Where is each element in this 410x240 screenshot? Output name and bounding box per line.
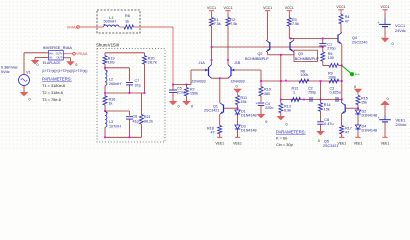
svg-text:Q3: Q3 bbox=[298, 52, 303, 56]
wire R9 to output rail bbox=[339, 64, 342, 66]
ground under V1 bbox=[20, 92, 29, 96]
svg-text:0: 0 bbox=[37, 63, 39, 67]
wire R14 column to ladder top wire bbox=[320, 81, 322, 100]
wire J1B gate to feedback node bbox=[236, 69, 262, 71]
transistor J1B bbox=[230, 67, 232, 76]
svg-text:0: 0 bbox=[392, 42, 394, 46]
wire D2 to D4 bbox=[357, 116, 359, 124]
transistor Q1 bbox=[223, 105, 225, 113]
resistor R19 bbox=[103, 56, 107, 64]
wire Q2 emitter to common node bbox=[267, 52, 269, 55]
voltage marker green bbox=[342, 66, 350, 73]
svg-text:15k: 15k bbox=[324, 107, 330, 111]
resistor R12 on top wire bbox=[329, 79, 339, 83]
svg-text:ShureV15III: ShureV15III bbox=[96, 42, 119, 47]
resistor R18 bbox=[218, 126, 222, 134]
svg-text:Q2: Q2 bbox=[258, 52, 263, 56]
wire Q2/Q3 emitters down ladder rail bbox=[280, 55, 282, 100]
resistor R15 bbox=[356, 95, 360, 104]
svg-text:J2N4393: J2N4393 bbox=[192, 79, 206, 83]
svg-text:VEE1: VEE1 bbox=[215, 141, 224, 145]
wire D1 to D3 bbox=[237, 116, 239, 124]
svg-text:OUT-: OUT- bbox=[56, 56, 62, 60]
svg-text:270p: 270p bbox=[327, 47, 335, 51]
output rail wire bbox=[341, 44, 343, 99]
svg-text:+: + bbox=[378, 116, 380, 120]
wire L2 bottom to mid rail bbox=[104, 86, 106, 97]
svg-text:VEE1: VEE1 bbox=[396, 118, 406, 122]
wire R2 to J1B drain bbox=[227, 26, 229, 65]
node between R16 and L3 bbox=[104, 105, 106, 112]
capacitor C8 bbox=[320, 111, 322, 122]
svg-text:0: 0 bbox=[75, 63, 77, 67]
svg-text:D1N4148: D1N4148 bbox=[241, 114, 257, 118]
svg-text:2SC3421: 2SC3421 bbox=[323, 144, 338, 148]
svg-text:2SC3421: 2SC3421 bbox=[204, 109, 219, 113]
wire Q5 base to bias chain bbox=[345, 107, 358, 109]
wire Q5 emitter to R17 bbox=[340, 114, 342, 125]
capacitor C6 bbox=[126, 116, 133, 118]
dashed box cartridge model bbox=[97, 10, 140, 33]
svg-text:V1: V1 bbox=[26, 70, 31, 74]
wire R19/L2 node to C7 bbox=[105, 67, 130, 69]
svg-text:500mH: 500mH bbox=[104, 20, 116, 24]
capacitor C1 bbox=[322, 38, 324, 43]
hierarchical block INVERSE_RIAA ELAPLACE bbox=[49, 51, 64, 61]
VCC1 power symbol above R3 bbox=[287, 10, 292, 12]
svg-text:R21: R21 bbox=[144, 115, 151, 119]
svg-text:OUT+: OUT+ bbox=[56, 51, 63, 55]
svg-text:24Vdc: 24Vdc bbox=[396, 123, 407, 127]
svg-text:D1N4148: D1N4148 bbox=[241, 129, 257, 133]
inductor L1 bbox=[104, 25, 120, 27]
svg-text:J1A: J1A bbox=[199, 61, 206, 65]
ground under R13 bbox=[277, 116, 286, 120]
capacitor C3 on bottom wire bbox=[335, 97, 337, 102]
wire R1 to J1A drain bbox=[211, 26, 213, 65]
svg-text:0: 0 bbox=[286, 123, 288, 127]
resistor R7 bbox=[186, 85, 188, 88]
dotted box ShureV15III bbox=[97, 49, 165, 142]
wire IN- to ground bbox=[35, 57, 49, 59]
label box Q3 bbox=[294, 50, 318, 61]
ground under C5 bbox=[169, 101, 178, 105]
capacitor C2 on bottom wire bbox=[309, 97, 311, 102]
VEE1 symbol under D3 bbox=[237, 135, 239, 137]
svg-text:VCC1: VCC1 bbox=[336, 5, 345, 9]
resistor R2 bbox=[227, 14, 229, 18]
svg-text:360: 360 bbox=[264, 92, 270, 96]
svg-text:100: 100 bbox=[328, 56, 334, 60]
svg-text:28.7k: 28.7k bbox=[148, 61, 157, 65]
svg-text:150k: 150k bbox=[190, 92, 198, 96]
svg-text:0: 0 bbox=[29, 98, 31, 102]
port VRIAA at block output bbox=[73, 52, 76, 55]
svg-text:2SC2240: 2SC2240 bbox=[352, 40, 367, 44]
svg-text:1k: 1k bbox=[109, 102, 113, 106]
svg-text:15k: 15k bbox=[361, 101, 367, 105]
svg-text:J2N4393: J2N4393 bbox=[231, 79, 245, 83]
VEE1 symbol under battery bbox=[384, 135, 386, 137]
svg-text:220u: 220u bbox=[265, 106, 273, 110]
svg-text:47: 47 bbox=[211, 130, 215, 134]
svg-text:T1 = 3180e-6: T1 = 3180e-6 bbox=[42, 83, 65, 88]
svg-text:D1N4148: D1N4148 bbox=[362, 129, 378, 133]
svg-text:J1B: J1B bbox=[234, 61, 241, 65]
svg-text:0: 0 bbox=[354, 85, 356, 89]
svg-text:VCC1: VCC1 bbox=[285, 6, 294, 10]
ladder bottom wire bbox=[281, 99, 342, 101]
wire Q1 emitter to R18 bbox=[219, 114, 221, 125]
wire top loop of box bbox=[105, 52, 145, 54]
svg-text:PARAMETERS:: PARAMETERS: bbox=[42, 77, 72, 82]
resistor R20 bbox=[143, 56, 147, 64]
svg-text:7.5k: 7.5k bbox=[292, 22, 299, 26]
wire R20 to mid rail bbox=[144, 64, 146, 93]
svg-text:PARAMETERS:: PARAMETERS: bbox=[276, 129, 306, 134]
svg-text:15k: 15k bbox=[241, 100, 247, 104]
resistor R9 bbox=[329, 63, 339, 67]
svg-text:0: 0 bbox=[318, 139, 320, 143]
resistor R14 bbox=[320, 100, 322, 103]
wire R3 to Q3 collector node bbox=[288, 26, 290, 38]
svg-text:0.825u: 0.825u bbox=[330, 91, 341, 95]
wire VCC1 to Q2 collector bbox=[267, 14, 269, 41]
node between R19 and L2 bbox=[104, 64, 106, 70]
svg-text:0Vdc: 0Vdc bbox=[1, 70, 10, 74]
svg-text:+: + bbox=[378, 21, 380, 25]
VCC1 power symbol above Q2 bbox=[265, 10, 270, 12]
svg-text:7.5k: 7.5k bbox=[230, 22, 237, 26]
svg-text:ELAPLACE: ELAPLACE bbox=[43, 61, 61, 65]
svg-text:98.2k: 98.2k bbox=[144, 120, 153, 124]
wire R16/L3 node to C6 bbox=[105, 110, 130, 112]
diode D3 bbox=[237, 124, 239, 125]
wire input node bbox=[172, 84, 174, 86]
battery V3 VEE1 24Vdc bbox=[379, 119, 391, 121]
svg-text:0: 0 bbox=[236, 85, 238, 89]
svg-text:BCHMBB/PLP: BCHMBB/PLP bbox=[245, 57, 269, 61]
svg-text:0: 0 bbox=[265, 120, 267, 124]
ground under VCC battery bbox=[381, 38, 390, 42]
svg-text:107mH: 107mH bbox=[109, 124, 121, 128]
ground above VEE battery bbox=[380, 100, 390, 105]
wire input to J1A gate bbox=[173, 84, 191, 86]
svg-text:24Vdc: 24Vdc bbox=[395, 29, 406, 33]
battery V2 VCC1 24Vdc bbox=[379, 23, 391, 25]
svg-text:750p: 750p bbox=[308, 91, 316, 95]
ground under C4 bbox=[257, 114, 266, 118]
resistor zig on bottom wire bbox=[291, 98, 301, 102]
transistor Q2 bbox=[269, 42, 271, 50]
transistor J1A bbox=[208, 67, 210, 76]
diode D2 bbox=[357, 109, 359, 110]
ladder top wire bbox=[261, 80, 342, 82]
svg-text:T3 = 75e-6: T3 = 75e-6 bbox=[42, 97, 61, 102]
mid wire of box bbox=[105, 92, 145, 94]
svg-text:Cin = 30p: Cin = 30p bbox=[276, 142, 293, 147]
resistor R8 on top wire bbox=[299, 79, 309, 83]
wire R6 to input node highlighted bbox=[134, 26, 174, 28]
svg-text:VRIAA: VRIAA bbox=[76, 52, 88, 56]
svg-text:C6: C6 bbox=[133, 115, 138, 119]
wire VCC1 to battery bbox=[384, 13, 386, 18]
svg-text:7.5k: 7.5k bbox=[214, 22, 221, 26]
svg-text:INVERSE_RIAA: INVERSE_RIAA bbox=[43, 45, 72, 50]
svg-text:IN-: IN- bbox=[49, 56, 53, 60]
resistor R10 bbox=[259, 87, 263, 96]
diode D1 bbox=[237, 109, 239, 110]
VEE1 symbol under D4 bbox=[357, 135, 359, 137]
diode D4 bbox=[357, 124, 359, 125]
wire L1 to R6 highlighted bbox=[119, 26, 124, 28]
wire OUT+ VRIAA highlighted bbox=[63, 53, 72, 55]
resistor R1 bbox=[211, 14, 213, 18]
svg-text:6.9k: 6.9k bbox=[284, 109, 291, 113]
svg-text:IN+: IN+ bbox=[49, 51, 54, 55]
wire Q3 emitter to common node bbox=[293, 52, 295, 55]
svg-text:VCC1: VCC1 bbox=[207, 6, 216, 10]
svg-text:D1N4148: D1N4148 bbox=[362, 114, 378, 118]
svg-text:0: 0 bbox=[191, 105, 193, 109]
wire R4 to Q4 collector bbox=[340, 24, 342, 33]
VEE1 symbol under R18 bbox=[219, 135, 221, 137]
inductor L2 bbox=[105, 70, 107, 86]
capacitor C5 Cin bbox=[172, 85, 174, 91]
ac source V1 bbox=[23, 53, 25, 75]
svg-text:VEE1: VEE1 bbox=[233, 141, 242, 145]
svg-text:37p: 37p bbox=[135, 83, 141, 87]
bottom wire of box bbox=[104, 127, 106, 137]
resistor R17 bbox=[340, 126, 344, 134]
wire J1A drain to bases and C1 bbox=[212, 46, 323, 48]
resistor R4 bbox=[340, 13, 342, 15]
VCC1 power symbol top right bbox=[382, 9, 387, 11]
wire OUT- to ground bbox=[63, 57, 70, 59]
svg-text:K = 6k: K = 6k bbox=[276, 135, 287, 140]
wire VRIAA to L1 highlighted bbox=[79, 26, 103, 28]
resistor R21 bbox=[140, 93, 142, 115]
svg-text:VCC1: VCC1 bbox=[263, 6, 272, 10]
VCC1 power symbol above R2 bbox=[225, 10, 230, 12]
VEE1 symbol under R17 bbox=[341, 135, 343, 137]
resistor R5 bbox=[322, 47, 324, 52]
svg-text:VEE1: VEE1 bbox=[381, 141, 390, 145]
ground at IN- bbox=[31, 60, 40, 64]
second stage output wire bbox=[289, 37, 338, 39]
svg-text:BCHMBB/PLP: BCHMBB/PLP bbox=[295, 57, 319, 61]
resistor R16 bbox=[103, 96, 107, 105]
svg-text:47: 47 bbox=[345, 130, 349, 134]
VCC1 power symbol above R4 bbox=[338, 9, 343, 11]
resistor R3 bbox=[288, 14, 290, 18]
ground under C8 bbox=[316, 131, 325, 135]
transistor Q4 bbox=[337, 34, 339, 42]
capacitor C4 bbox=[260, 96, 262, 102]
svg-text:0.38mVac: 0.38mVac bbox=[1, 65, 18, 69]
svg-text:R6: R6 bbox=[125, 14, 130, 18]
svg-text:VCC1: VCC1 bbox=[395, 24, 405, 28]
source coupling wire bbox=[211, 77, 213, 79]
resistor R13 bbox=[280, 100, 282, 104]
svg-text:0.47u: 0.47u bbox=[324, 122, 333, 126]
svg-text:0: 0 bbox=[178, 105, 180, 109]
capacitor C7 bbox=[126, 82, 133, 84]
junction at C1/R5 node bbox=[322, 46, 324, 48]
ground at OUT- bbox=[66, 61, 75, 65]
wire R5 to R9 bbox=[322, 61, 324, 65]
svg-text:(1+T1*(s))*(1+T2*(s))/(1+T3*(s: (1+T1*(s))*(1+T2*(s))/(1+T3*(s)) bbox=[42, 69, 87, 73]
ground under R7 bbox=[182, 101, 191, 105]
svg-text:41p: 41p bbox=[133, 119, 139, 123]
VCC1 power symbol above R1 bbox=[209, 10, 214, 12]
transistor Q5 bbox=[344, 104, 346, 112]
node R11 to Q1 base and D1 bbox=[237, 105, 239, 109]
svg-text:VCC1: VCC1 bbox=[223, 6, 232, 10]
transistor Q3 bbox=[289, 42, 291, 50]
svg-text:0: 0 bbox=[387, 97, 389, 101]
svg-text:VEE1: VEE1 bbox=[354, 141, 363, 145]
svg-text:T2 = 318e-6: T2 = 318e-6 bbox=[42, 90, 63, 95]
svg-text:260mH: 260mH bbox=[109, 82, 121, 86]
inductor L3 bbox=[105, 112, 107, 128]
resistor R11 bbox=[236, 95, 240, 104]
svg-text:1k: 1k bbox=[125, 19, 129, 23]
resistor R6 bbox=[124, 25, 134, 29]
svg-text:VCC1: VCC1 bbox=[380, 5, 389, 9]
svg-text:1: 1 bbox=[293, 91, 295, 95]
wire ground to VEE battery bbox=[384, 105, 386, 115]
svg-text:100k: 100k bbox=[301, 73, 309, 77]
svg-text:47: 47 bbox=[345, 19, 349, 23]
wire V1 to IN+ bbox=[24, 52, 49, 54]
svg-text:10G: 10G bbox=[108, 61, 115, 65]
wire sources to Q1 collector bbox=[219, 78, 221, 103]
svg-text:VEE1: VEE1 bbox=[337, 141, 346, 145]
